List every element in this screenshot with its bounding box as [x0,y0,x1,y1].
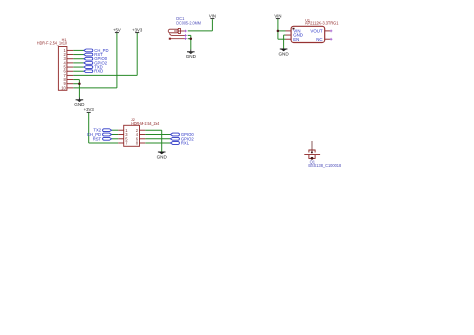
svg-text:BSS138_C100018: BSS138_C100018 [308,163,341,168]
svg-text:DC005-2.0MM: DC005-2.0MM [176,20,201,25]
svg-text:HDR-F-2.54_1x10: HDR-F-2.54_1x10 [37,40,68,45]
svg-text:GND: GND [157,154,168,159]
svg-text:GND: GND [186,54,197,59]
svg-text:VIN: VIN [209,13,216,18]
svg-text:10: 10 [61,85,66,90]
svg-text:GND: GND [278,51,289,56]
svg-text:RXL: RXL [181,141,190,146]
svg-text:VIN: VIN [274,13,281,18]
svg-text:RXD: RXD [94,69,103,74]
svg-text:VOUT: VOUT [310,29,323,34]
svg-text:+3V3: +3V3 [84,107,95,112]
svg-text:NC: NC [316,37,322,42]
svg-text:+5V: +5V [113,27,121,32]
svg-text:AP2112K-3.3TRG1: AP2112K-3.3TRG1 [305,21,339,26]
svg-text:RST: RST [93,136,102,141]
svg-text:EN: EN [293,37,299,42]
svg-text:+3V3: +3V3 [132,27,143,32]
